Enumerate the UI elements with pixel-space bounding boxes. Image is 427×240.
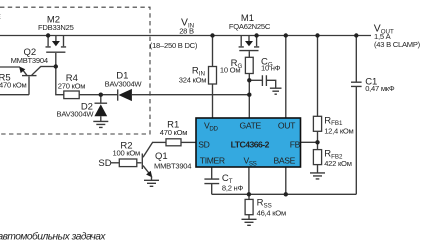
svg-text:GATE: GATE bbox=[240, 120, 262, 130]
svg-text:MMBT3904: MMBT3904 bbox=[11, 56, 48, 65]
svg-text:(18–250 В DC): (18–250 В DC) bbox=[150, 41, 198, 50]
svg-text:SD: SD bbox=[198, 139, 209, 149]
svg-text:LTC4366-2: LTC4366-2 bbox=[231, 139, 270, 149]
svg-text:10 нФ: 10 нФ bbox=[261, 64, 281, 73]
svg-text:12,4 кОм: 12,4 кОм bbox=[324, 127, 353, 136]
svg-text:FDB33N25: FDB33N25 bbox=[38, 23, 74, 32]
svg-text:10 Ом: 10 Ом bbox=[220, 66, 240, 75]
svg-text:270 кОм: 270 кОм bbox=[58, 81, 86, 90]
svg-text:OUT: OUT bbox=[278, 120, 296, 130]
svg-text:FB: FB bbox=[290, 139, 301, 149]
svg-text:100 кОм: 100 кОм bbox=[113, 148, 141, 157]
svg-text:BASE: BASE bbox=[273, 156, 295, 166]
svg-text:46,4 кОм: 46,4 кОм bbox=[257, 208, 286, 217]
svg-text:470 кОм: 470 кОм bbox=[0, 81, 27, 90]
svg-text:BAV3004W: BAV3004W bbox=[57, 109, 95, 118]
svg-text:автомобильных задачах: автомобильных задачах bbox=[0, 230, 106, 240]
svg-text:8,2 нФ: 8,2 нФ bbox=[222, 183, 244, 192]
svg-text:TIMER: TIMER bbox=[200, 156, 225, 166]
svg-text:SD: SD bbox=[98, 158, 111, 169]
svg-text:470 кОм: 470 кОм bbox=[160, 128, 188, 137]
svg-text:FQA62N25C: FQA62N25C bbox=[229, 22, 271, 31]
svg-text:MMBT3904: MMBT3904 bbox=[154, 161, 191, 170]
svg-text:0,47 мкФ: 0,47 мкФ bbox=[365, 84, 395, 93]
svg-text:(43 В CLAMP): (43 В CLAMP) bbox=[374, 40, 421, 49]
svg-text:324 кОм: 324 кОм bbox=[179, 76, 207, 85]
svg-text:28 В: 28 В bbox=[179, 26, 194, 35]
svg-text:422 кОм: 422 кОм bbox=[324, 159, 352, 168]
svg-text:BAV3004W: BAV3004W bbox=[105, 79, 143, 88]
